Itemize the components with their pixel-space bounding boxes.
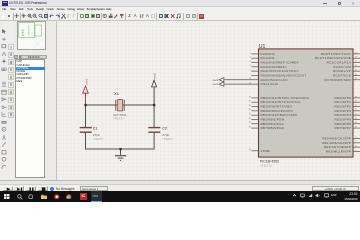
pin RC5/D+/VP — [353, 70, 360, 72]
pin RB7/KBI3/PGD — [251, 127, 258, 129]
svg-text:C1: C1 — [92, 126, 97, 130]
menu bar — [0, 7, 360, 13]
svg-text:40: 40 — [248, 126, 250, 128]
pin RD3/SPP3 — [353, 110, 360, 112]
pin RD4/SPP4 — [353, 114, 360, 116]
taskbar — [0, 191, 360, 202]
svg-text:OSC1/CLKI: OSC1/CLKI — [260, 82, 278, 86]
svg-text:13: 13 — [248, 82, 250, 84]
tray — [292, 193, 297, 198]
pin RC7/RX/DT/SDO — [353, 79, 360, 81]
left mode toolbar column 2 — [8, 44, 13, 50]
svg-text:9: 9 — [355, 141, 356, 143]
svg-text:7: 7 — [249, 74, 250, 76]
svg-text:RC7/RX/DT/SDO: RC7/RX/DT/SDO — [324, 78, 351, 82]
svg-text:18: 18 — [248, 149, 250, 151]
pin RB4/AN11/KBI0/CSSPP — [251, 114, 258, 116]
svg-text:1: 1 — [355, 150, 356, 152]
svg-text:VUSB: VUSB — [260, 149, 269, 153]
svg-text:osc2: osc2 — [212, 78, 218, 82]
svg-text:<TEXT>: <TEXT> — [162, 137, 173, 141]
wire: right branch down — [153, 105, 155, 127]
svg-text:38: 38 — [248, 118, 250, 120]
start button — [4, 194, 10, 200]
overview window — [17, 21, 47, 50]
svg-text:4: 4 — [249, 61, 250, 63]
wire: ground stub — [119, 149, 121, 155]
pin RC6/TX/CK — [353, 74, 360, 76]
svg-text:C2: C2 — [162, 126, 167, 130]
svg-text:10: 10 — [354, 146, 356, 148]
svg-text:RE3/MCLR/VPP: RE3/MCLR/VPP — [325, 149, 350, 153]
svg-text:36: 36 — [248, 109, 250, 111]
svg-text:34: 34 — [248, 101, 250, 103]
toolbar — [0, 12, 360, 21]
svg-text:39: 39 — [248, 122, 250, 124]
terminal osc1 (left, red) — [82, 78, 88, 105]
node junction left — [84, 104, 86, 106]
pin RA1/AN1 — [251, 57, 258, 59]
svg-text:6: 6 — [249, 70, 250, 72]
capacitor C2 — [148, 128, 159, 131]
svg-text:29: 29 — [354, 122, 356, 124]
wire: top horizontal net — [85, 104, 154, 106]
svg-text:30: 30 — [354, 126, 356, 128]
pin RC1/T1OSI/CCP2/UOE — [353, 57, 360, 59]
pin RA3/AN3/VREF+ — [251, 66, 258, 68]
svg-text:osc2: osc2 — [152, 73, 156, 79]
svg-text:16: 16 — [354, 57, 356, 59]
schematic canvas — [57, 21, 360, 180]
wire to OSC2 pin — [223, 79, 258, 81]
svg-text:26: 26 — [354, 78, 356, 80]
pin RE0/AN5/CK1SPP — [353, 138, 360, 140]
pin VUSB — [251, 150, 258, 152]
pin RB0/AN12/INT0/FLT0/SDI/SDA — [251, 97, 258, 99]
folder icon — [41, 194, 47, 199]
pin RD7/SPP7 — [353, 127, 360, 129]
pin RC0/T1OSO/T1CKI — [353, 53, 360, 55]
pin RE3/MCLR/VPP — [353, 150, 360, 152]
pin RB1/AN10/INT1/SCK/SCL — [251, 101, 258, 103]
svg-text:3: 3 — [249, 57, 250, 59]
IC red tile — [80, 193, 87, 200]
svg-text:27: 27 — [354, 114, 356, 116]
pin RD6/SPP6 — [353, 123, 360, 125]
svg-text:20: 20 — [354, 101, 356, 103]
pin RA4/T0CKI/C1OUT/RCV — [251, 70, 258, 72]
search icon — [17, 194, 23, 200]
terminal osc1 pennant — [219, 82, 224, 86]
svg-text:RB7/KBI3/PGD: RB7/KBI3/PGD — [260, 126, 284, 130]
pin RD5/SPP5 — [353, 118, 360, 120]
svg-text:24: 24 — [354, 70, 356, 72]
pin RD2/SPP2 — [353, 106, 360, 108]
svg-text:15: 15 — [354, 52, 356, 54]
terminal osc2 (right, dark) — [151, 73, 156, 105]
svg-text:<TEXT>: <TEXT> — [92, 137, 103, 141]
svg-text:35: 35 — [248, 105, 250, 107]
red circle icon — [54, 194, 60, 200]
active isis tile — [91, 191, 103, 202]
svg-text:osc1: osc1 — [212, 82, 218, 86]
svg-text:2: 2 — [249, 52, 250, 54]
pin RE2/AN7/OESPP — [353, 146, 360, 148]
microcontroller U1 PIC18F4550 — [248, 44, 360, 168]
svg-text:28: 28 — [354, 118, 356, 120]
svg-text:5: 5 — [249, 65, 250, 67]
svg-text:osc1: osc1 — [84, 78, 88, 84]
terminal osc2 pennant — [219, 78, 224, 82]
svg-text:RD7/SPP7: RD7/SPP7 — [334, 126, 351, 130]
svg-text:21: 21 — [354, 105, 356, 107]
pin RA0/AN0 — [251, 53, 258, 55]
task ring icon — [28, 194, 34, 200]
pin RC2/CCP1/P1A — [353, 62, 360, 64]
P L buttons and DEVICES header — [14, 55, 18, 59]
device list — [15, 59, 46, 179]
left panel background — [15, 21, 57, 180]
pin RB5/KBI1/PGM — [251, 118, 258, 120]
pin RB3/AN9/CCP2/VPO — [251, 110, 258, 112]
capacitor C1 — [80, 128, 91, 131]
svg-text:<TEXT>: <TEXT> — [113, 117, 124, 121]
crystal X1 — [113, 91, 127, 121]
svg-text:22: 22 — [354, 109, 356, 111]
svg-text:19: 19 — [354, 96, 356, 98]
svg-text:37: 37 — [248, 114, 250, 116]
wire: bottom net — [85, 133, 154, 149]
svg-text:17: 17 — [354, 61, 356, 63]
svg-text:25: 25 — [354, 74, 356, 76]
wire: left branch down — [84, 105, 86, 127]
node junction ground — [119, 148, 121, 150]
pin RE1/AN6/CK2SPP — [353, 142, 360, 144]
pin RD1/SPP1 — [353, 101, 360, 103]
status bar — [0, 184, 360, 191]
svg-text:<TEXT>: <TEXT> — [260, 164, 272, 168]
svg-text:X1: X1 — [114, 91, 120, 96]
pin RD0/SPP0 — [353, 97, 360, 99]
bottom strip — [0, 180, 360, 184]
svg-text:8: 8 — [355, 137, 356, 139]
ground — [114, 156, 125, 161]
svg-text:33: 33 — [248, 96, 250, 98]
chrome icon — [66, 194, 72, 200]
svg-text:14: 14 — [248, 78, 250, 80]
left mode toolbar column 1 — [0, 21, 15, 180]
wire to OSC1 pin — [223, 83, 258, 85]
pin RA2/AN2/VREF-/CVREF — [251, 62, 258, 64]
pin RA5/AN4/SS/HLVDIN/C2OUT — [251, 74, 258, 76]
title bar — [0, 0, 360, 7]
node junction right — [153, 104, 155, 106]
svg-text:23: 23 — [354, 65, 356, 67]
pin RB2/AN8/INT2/VMO — [251, 106, 258, 108]
pin RC4/D-/VM — [353, 66, 360, 68]
pin RB6/KBI2/PGC — [251, 123, 258, 125]
